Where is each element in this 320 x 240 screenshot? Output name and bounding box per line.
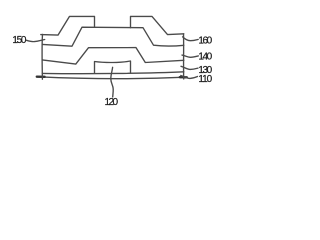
substrate 110 bottom line xyxy=(39,77,186,79)
leader 150 wire xyxy=(27,40,45,42)
svg-text:160: 160 xyxy=(198,36,212,47)
svg-text:140: 140 xyxy=(198,51,212,62)
leader 140 tilde xyxy=(182,55,198,57)
drain electrode 160 outline xyxy=(131,16,184,34)
active layer 140 surface xyxy=(42,27,184,46)
substrate 110 right corner dash xyxy=(180,76,187,79)
leader 110 tilde xyxy=(181,76,198,79)
gate electrode 120 xyxy=(95,61,131,73)
leader 130 tilde xyxy=(181,66,198,69)
svg-text:110: 110 xyxy=(198,74,212,85)
substrate 110 left corner dash xyxy=(37,75,45,78)
svg-text:150: 150 xyxy=(12,35,26,46)
substrate 110 top line xyxy=(42,72,184,74)
source electrode 150 outline xyxy=(41,16,95,35)
gate insulating layer 130 surface xyxy=(42,48,184,65)
svg-text:120: 120 xyxy=(105,97,119,108)
leader 160 tilde xyxy=(183,37,199,41)
leader 120 wire xyxy=(111,67,113,97)
stack left edge wire xyxy=(41,34,43,79)
stack right edge wire xyxy=(183,34,185,79)
